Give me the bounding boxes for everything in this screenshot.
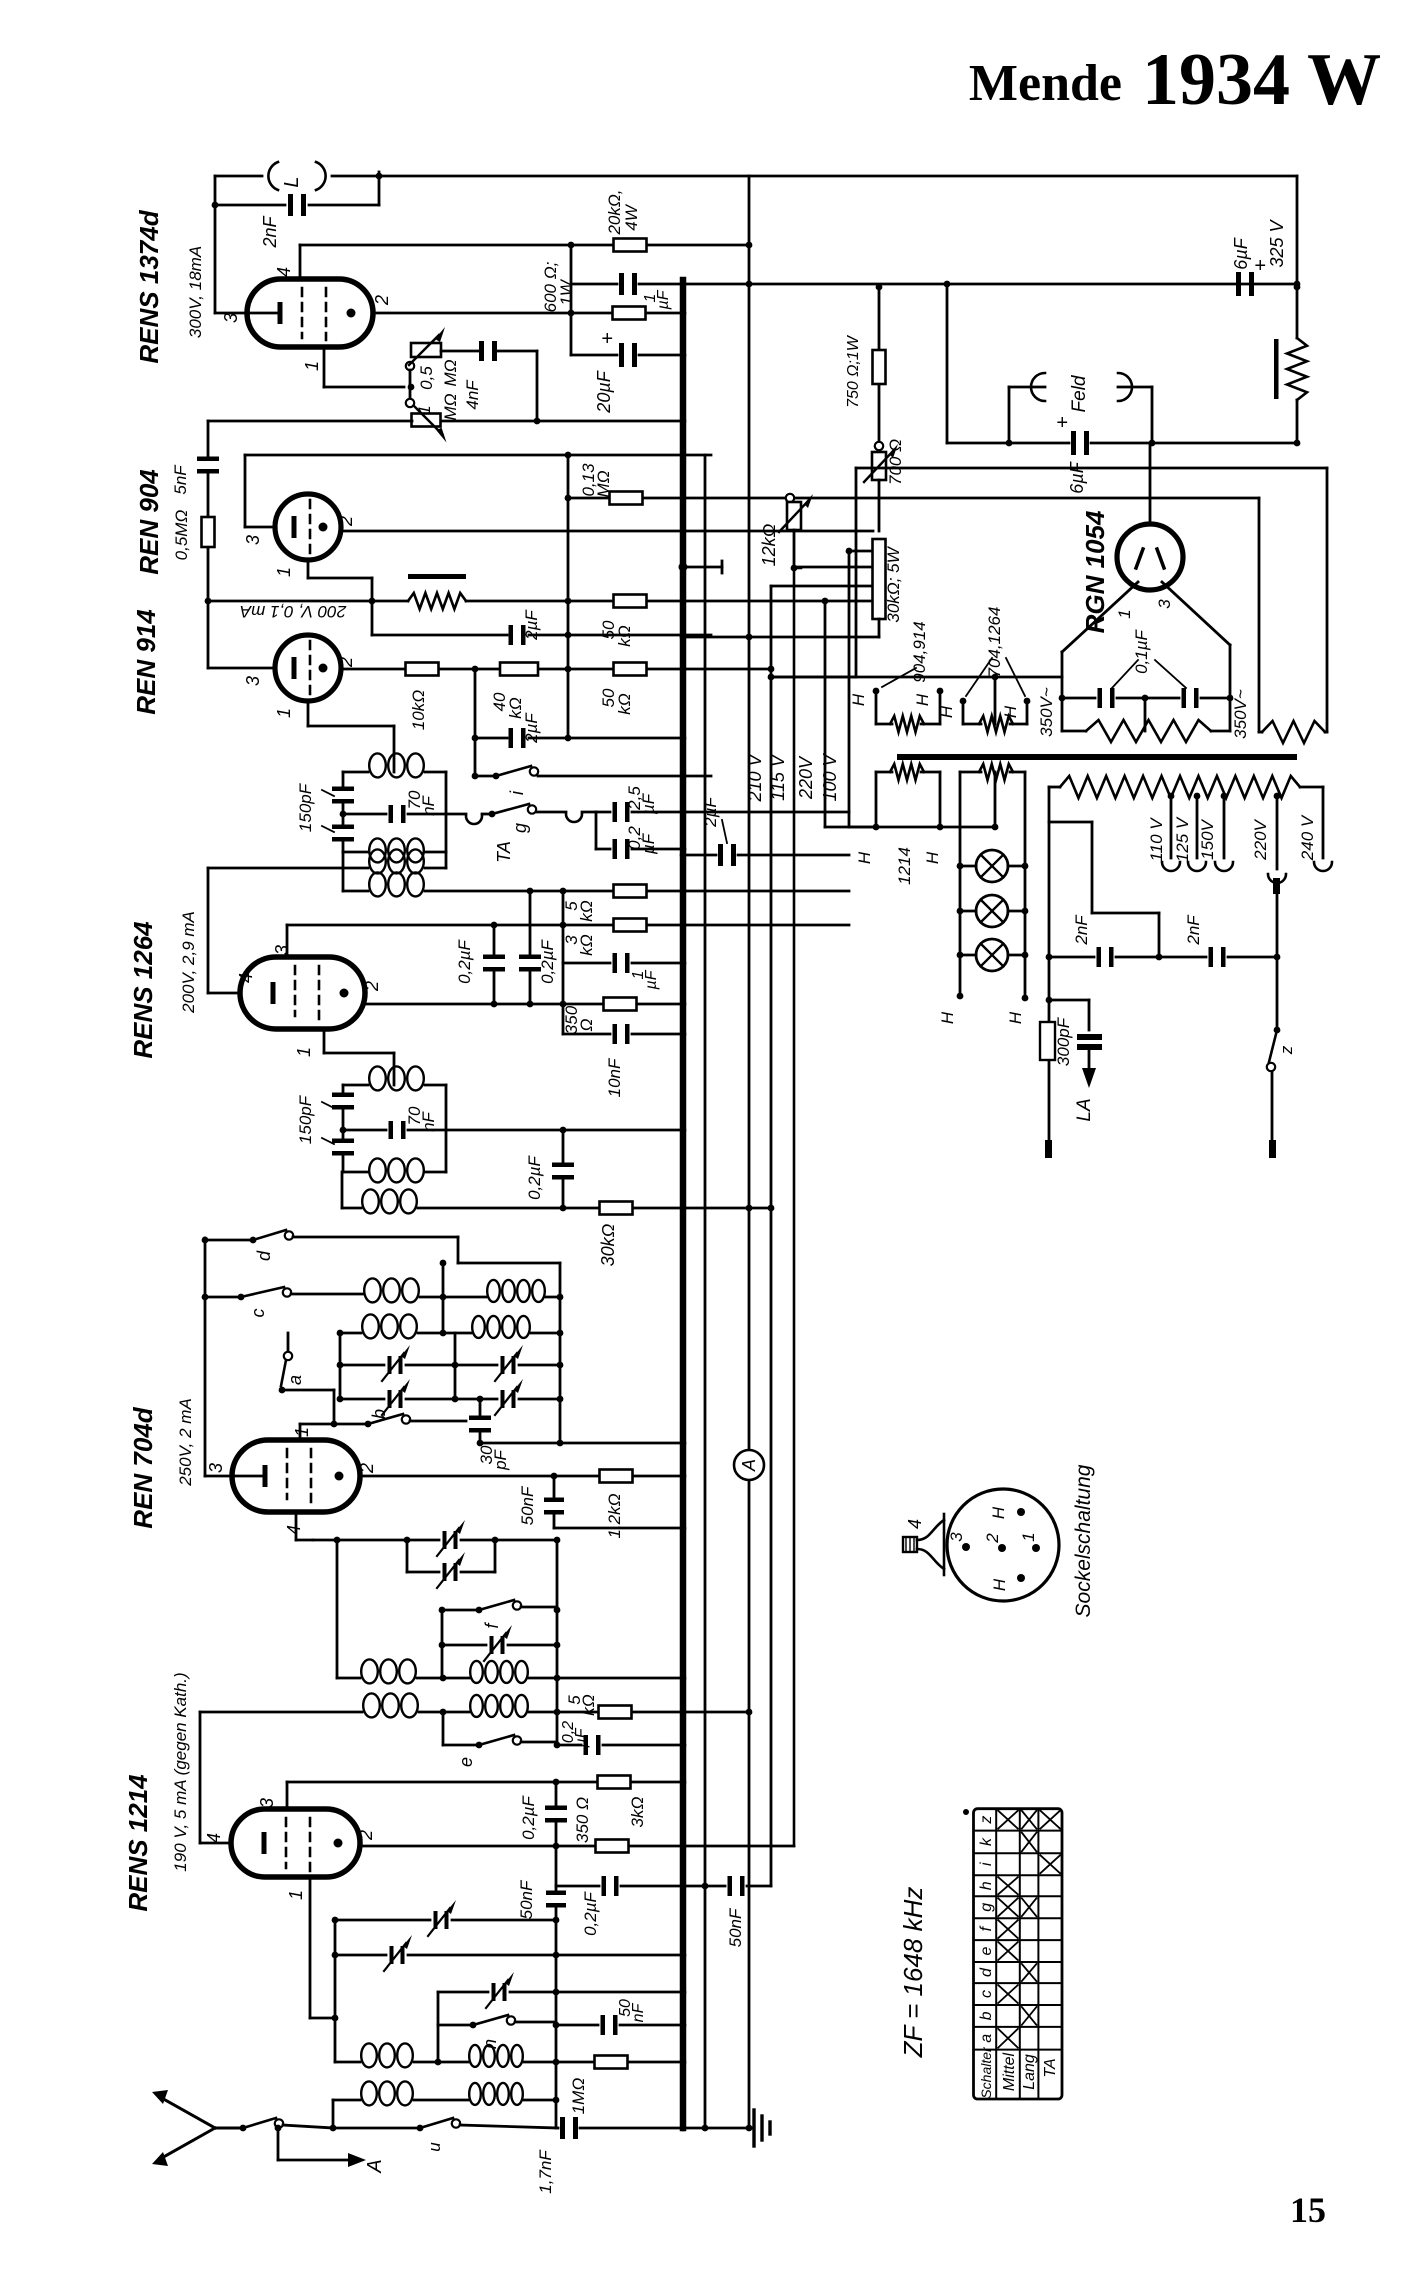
svg-text:1: 1 [286,1890,306,1900]
wire cathode path [307,560,310,578]
wire a to grid row [282,1389,334,1392]
svg-text:nF: nF [419,794,438,815]
svg-text:0,5MΩ: 0,5MΩ [172,510,191,561]
node pin1 x411 [408,384,415,391]
svg-text:350V~: 350V~ [1231,689,1250,739]
svg-text:MΩ: MΩ [594,470,613,497]
node y738 x475 [472,735,479,742]
node x537 y421 [534,418,541,425]
ground symbol [749,2127,754,2130]
resistor cathode zigzag with bar [408,593,466,609]
wire y827 row [825,826,995,829]
wire rail y468 [856,467,1327,470]
node bus y738 [680,735,687,742]
wire TA row y814 [446,813,466,816]
svg-text:c: c [248,1309,268,1318]
wire 2,5uF row y812 [596,811,610,814]
svg-text:15: 15 [1290,2190,1326,2230]
wire y855 right with 2uF [680,852,687,859]
table X marks [998,1811,1018,1829]
wire lamp rails [959,866,962,996]
wire vertical rail 100V x849 [848,551,851,827]
wire grid pin1 path [323,347,326,387]
node x205 top [202,1237,209,1244]
svg-text:k: k [978,1837,995,1846]
switch antenna [240,2125,247,2132]
svg-text:0,2µF: 0,2µF [455,938,474,983]
switch e row y1745 [442,1712,445,1745]
wire to 1,7nF [460,2125,558,2128]
svg-text:50nF: 50nF [517,1879,536,1919]
node bus y355 [680,352,687,359]
resistor 5kOhm a [614,885,647,898]
capacitor 70nF b [389,1121,394,1139]
svg-text:30kΩ; 5W: 30kΩ; 5W [884,545,903,622]
wire riser x379 [378,172,381,205]
svg-text:H: H [937,705,956,718]
svg-text:Sockelschaltung: Sockelschaltung [1072,1464,1095,1617]
capacitor 2nF a [1097,947,1102,967]
wire grid pin1 path 1214 [309,1877,312,2018]
wire y812 right [683,811,849,814]
wire vertical rail 220V x825 [824,603,827,827]
wire x208 down to pin4 [207,868,210,993]
node x1297 y443 [1294,440,1301,447]
svg-text:190 V, 5 mA (gegen Kath.): 190 V, 5 mA (gegen Kath.) [171,1672,190,1871]
svg-text:RENS 1374d: RENS 1374d [134,209,164,363]
node y455 x568 [565,452,572,459]
terminal circle pot 0.5M [406,362,414,370]
capacitor 0,1uF pair [1062,697,1095,700]
bandfilter2 right x446 [445,1085,448,1172]
contact arc a [466,816,482,824]
node y891 x530 [527,888,534,895]
wire row y891 with coil [343,890,368,893]
tube RENS 1264 [240,957,365,1029]
svg-text:2µF: 2µF [522,609,541,641]
svg-text:H: H [990,1578,1009,1591]
wire x560 vertical [559,1263,562,1443]
wire y567 row [794,566,873,569]
node y601 x825 [822,598,829,605]
svg-text:Ω: Ω [577,1018,596,1031]
wire vertical x571 [570,245,573,355]
svg-text:1: 1 [294,1047,314,1057]
svg-text:3kΩ: 3kΩ [628,1796,647,1827]
node bus y812 [680,809,687,816]
coil row y1678 [337,1677,360,1680]
svg-text:µF: µF [639,792,658,815]
svg-text:350 Ω: 350 Ω [573,1797,592,1843]
pilot lamp 2 [976,895,1008,927]
node x1297 y287 [1294,284,1301,291]
svg-text:REN 704d: REN 704d [128,1406,158,1528]
node y1004 x563 [560,1001,567,1008]
capacitor 2uF grid [509,625,514,645]
wire rail to ground [683,2127,749,2130]
wire grid pin1 path 1264 [323,1029,326,1053]
terminal circle 700 pot [875,442,883,450]
svg-text:1: 1 [274,708,294,718]
switch b row y1424 [299,1424,302,1440]
wire 2uF row y738 [475,737,507,740]
resistor 5kOhm b [599,1706,632,1719]
svg-text:2nF: 2nF [1072,914,1091,946]
switch i row y776 [472,773,479,780]
wire pin3 up [286,925,289,957]
heater winding 704,1264 [979,716,1013,732]
svg-text:2: 2 [336,516,356,527]
wire corner x537 [536,351,539,421]
node bus y925 [680,922,687,929]
node x208 y601 [205,598,212,605]
node 300pF row [1046,997,1053,1004]
wire cathode-R row y601 [208,600,408,603]
wire RGN top [1149,443,1152,524]
bandfilter2 coil top y1085 [343,1084,368,1087]
plug pin left [1045,1140,1052,1158]
heater winding 904,914 [890,716,924,732]
svg-text:a: a [978,2034,995,2043]
capacitor 70nF [389,805,394,823]
svg-text:4: 4 [284,1525,304,1535]
svg-text:e: e [978,1947,995,1956]
potentiometer 700 Ohm [872,452,886,480]
svg-text:A: A [739,1459,759,1472]
wire 240V corner [1300,786,1323,789]
node x879 y287 [876,284,883,291]
trimmer row y1645 [442,1644,486,1647]
node y738 x568 [565,735,572,742]
wire x455 [454,1333,457,1399]
switch table [974,1809,1063,2099]
svg-text:4nF: 4nF [463,379,482,410]
node y891 x563 [560,888,567,895]
wire 300pF row [1049,999,1089,1002]
wire 4nF row y351 [441,350,480,353]
wire jog y913 [1092,912,1159,915]
svg-text:1: 1 [292,1427,312,1437]
wire stub [409,370,412,387]
wire 325V vertical [1296,176,1299,338]
heater winding 1214 below core [890,764,924,780]
node bus y1004 [680,1001,687,1008]
node y925 x563 [560,922,567,929]
capacitor 1uF [619,273,624,295]
svg-text:µF: µF [639,832,658,855]
wire vertical rail 210V x771 [770,586,773,1886]
svg-text:2nF: 2nF [260,215,280,248]
wire pin4 path 1214 [200,1842,231,1845]
taps on primary [1168,793,1175,800]
arrow A terminal [277,2128,280,2160]
RGN filament winding [1086,720,1211,742]
tube RGN 1054 [1117,524,1183,590]
svg-text:H: H [913,693,932,706]
capacitor 150pF c [332,1093,354,1098]
node x794 y568 [791,565,798,572]
svg-text:150pF: 150pF [296,782,315,832]
svg-text:220V: 220V [796,755,816,800]
wire y827 left [849,826,876,829]
wire vertical rail x705 [704,455,707,2128]
wire anode row y531 [341,530,873,533]
svg-text:MΩ: MΩ [441,393,460,420]
capacitor 0,2uF e [584,1735,589,1755]
svg-text:Mittel: Mittel [1001,2052,1018,2091]
wire x438 [437,1992,440,2062]
capacitor 20uF + [619,343,624,367]
svg-text:c: c [978,1990,995,1998]
svg-text:+: + [1254,255,1266,277]
wire 1uF row y284 [571,283,617,286]
output winding right [1262,721,1325,743]
node y1476 x554 [551,1473,558,1480]
switch a [287,1333,290,1352]
svg-text:3: 3 [1155,599,1174,609]
lamp winding below core [979,764,1013,780]
svg-text:125 V: 125 V [1173,816,1192,862]
svg-text:50nF: 50nF [726,1907,745,1947]
svg-text:e: e [456,1757,476,1767]
wire x1062 [1061,652,1064,731]
svg-text:700 Ω: 700 Ω [886,439,905,485]
svg-text:1,7nF: 1,7nF [536,2149,555,2194]
wire RGN diag left [1062,582,1138,652]
svg-text:3: 3 [221,313,241,323]
wire x1327 [1326,468,1329,732]
wire x556 long [555,1782,558,1806]
wire 2nF row y957 [1049,956,1094,959]
resistor 40kOhm [500,663,538,676]
svg-text:2: 2 [362,981,382,992]
svg-text:b: b [369,1409,389,1419]
svg-text:1: 1 [302,361,322,371]
capacitor 1,7nF [560,2117,565,2139]
wire primary left [1049,786,1060,789]
svg-text:H: H [923,851,942,864]
node bus y849 [680,846,687,853]
capacitor 0,2uF c [519,955,541,960]
wire x557 drop [556,1540,559,1745]
speaker horn [903,1537,917,1552]
svg-text:0,5: 0,5 [417,366,436,390]
svg-text:pF: pF [491,1448,510,1470]
svg-text:REN 904: REN 904 [134,469,164,575]
resistor 50kOhm b [614,663,647,676]
meter A [734,1450,764,1480]
capacitor 1uF b [613,953,618,973]
node top rail x379 [376,173,383,180]
node bus y963 [680,960,687,967]
wire x947 [946,284,949,443]
wire x596 drop [595,812,598,849]
wire 0,2uF row y849 [596,848,610,851]
switch z [1269,1030,1277,1062]
wire pin3 rail y1782 [286,1782,289,1809]
wire row y925 [287,924,612,927]
svg-text:2: 2 [372,295,392,306]
bandfilter coil bottom y852 [343,851,368,854]
svg-text:2: 2 [336,657,356,668]
wire pin3 loop [244,455,247,527]
svg-text:1: 1 [415,405,434,414]
svg-text:3: 3 [243,535,263,545]
wire AVC vertical x568 [567,455,570,738]
svg-text:A: A [364,2159,386,2173]
node y669 x568 [565,666,572,673]
switch contact 220V [1273,878,1280,894]
capacitor 6uF bottom + [1071,431,1076,455]
wire left drop x215 [214,176,217,313]
resistor 3kOhm a [614,919,647,932]
svg-text:6µF: 6µF [1067,461,1087,493]
node y677 x995 [992,674,999,681]
capacitor 0,2uF g [602,1876,607,1896]
trimmer row y1540 [313,1539,439,1542]
svg-text:0,2µF: 0,2µF [538,938,557,983]
capacitor 50nF c [728,1876,733,1896]
bandfilter coil top y772 [343,771,368,774]
wire 2uF row y635 [372,634,507,637]
pilot lamp 1 [976,850,1008,882]
svg-text:µF: µF [573,1727,590,1748]
node y245 end [746,242,753,249]
svg-text:1214: 1214 [895,847,914,885]
capacitor 50nF stub [553,1476,556,1498]
bandfilter mid row 70nF [343,813,386,816]
node y1208 x563 [560,1205,567,1212]
svg-text:5nF: 5nF [171,464,190,495]
svg-text:1MΩ: 1MΩ [569,2078,588,2115]
svg-text:TA: TA [494,841,514,863]
svg-text:nF: nF [630,2002,647,2022]
svg-text:u: u [425,2142,444,2152]
svg-text:Mende: Mende [969,55,1122,112]
wire anode row y1846 [360,1845,596,1848]
svg-text:RENS 1264: RENS 1264 [128,921,158,1059]
bandfilter2 coil bottom y1172 [343,1171,368,1174]
node y1208 x771 end [768,1205,775,1212]
node bus y669 [680,666,687,673]
node x749 y637 [746,634,753,641]
capacitor 6uF top + [1236,272,1241,296]
tap hooks [1162,862,1180,871]
node y635 x568 [565,632,572,639]
wire grid row y455 [245,454,711,457]
wire pin4 path [295,1512,298,1540]
svg-text:Schalter: Schalter [978,2046,994,2099]
svg-text:2nF: 2nF [1184,914,1203,946]
svg-text:30kΩ: 30kΩ [598,1223,618,1266]
resistor 1,2kOhm [600,1470,633,1483]
capacitor 50nF d [601,2015,606,2035]
coupling coil L [268,162,278,190]
wire 2nF branch [215,204,285,207]
svg-text:300pF: 300pF [1054,1016,1073,1066]
capacitor 2,5uF [613,802,618,822]
tube RENS 1214 [231,1809,360,1877]
wire anode row y669 [341,668,406,671]
svg-text:1: 1 [274,567,294,577]
node bus y284 [680,281,687,288]
wire x1089 [1088,1000,1091,1030]
node y669 x771 [768,666,775,673]
svg-text:RGN 1054: RGN 1054 [1080,510,1110,633]
resistor 750 Ohm 1W [873,350,886,384]
svg-text:3: 3 [257,1798,277,1808]
resistor 20kOhm 4W [614,239,647,252]
node x749 y284 [746,281,753,288]
wire grid-leak row y421 [208,420,412,423]
node filter mid left [340,811,347,818]
wire x563 with 0,2uF d [562,1130,565,1163]
resistor 3kOhm b [598,1776,631,1789]
transformer core [897,754,1297,760]
svg-text:1: 1 [1115,609,1134,618]
terminal circle pot 1M [406,399,414,407]
svg-text:g: g [510,823,530,833]
svg-text:LA: LA [1074,1098,1095,1121]
wire row y1886 [556,1885,599,1888]
svg-text:4: 4 [236,973,256,983]
wire x333 to antenna rail [332,2100,335,2128]
svg-text:210 V: 210 V [745,752,765,802]
node x340 y1333 [337,1330,344,1337]
coil row y2062 [335,2061,360,2064]
wire 20uF row y355 [571,354,617,357]
wire c row coil L2 [291,1293,363,1296]
node x205 y1297 [202,1294,209,1301]
svg-text:250V, 2 mA: 250V, 2 mA [176,1398,195,1487]
node x372 y601 [369,598,376,605]
wire rail y1443 [480,1442,683,1445]
switch u [417,2125,424,2132]
node y677 x771 [768,674,775,681]
node bus y1034 [680,1031,687,1038]
bandfilter right x446 [445,772,448,868]
capacitor 2nF [288,194,293,216]
resistor 30kOhm 5W [873,539,886,619]
capacitor 150pF a [332,787,354,792]
node x560 y1297 [557,1294,564,1301]
svg-text:1: 1 [1019,1532,1038,1541]
capacitor 0,2uF a [613,839,618,859]
svg-text:2µF: 2µF [522,712,541,744]
svg-text:325 V: 325 V [1267,218,1287,267]
svg-text:1934 W: 1934 W [1142,39,1381,121]
capacitor 4nF [479,341,484,361]
wire bus stub y567 [679,563,688,572]
svg-text:50nF: 50nF [518,1485,537,1525]
resistor choke zigzag [1287,338,1307,400]
wire rail y1208 [341,1172,344,1208]
wire x442 [441,1610,444,1678]
svg-text:240 V: 240 V [1298,814,1317,861]
node bus y601 [680,598,687,605]
wire vertical rail x749 [748,176,751,1450]
svg-text:2: 2 [357,1463,377,1474]
wire 10nF row y1034 [563,1033,610,1036]
wire RGN diag right [1162,582,1230,645]
wire vertical rail 115V x794 [794,568,801,1846]
wire x205 vertical [204,1238,207,1476]
svg-text:3: 3 [243,676,263,686]
wire x856 drop [855,468,858,677]
wire pin3 y668 [208,667,275,670]
svg-text:g: g [978,1903,995,1912]
switch f row y1610 [442,1609,479,1612]
